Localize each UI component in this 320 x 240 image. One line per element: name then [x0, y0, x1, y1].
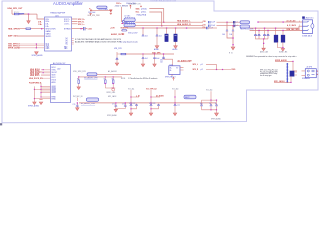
svg-text:HDA_SPK_OUT: HDA_SPK_OUT — [8, 7, 24, 10]
svg-text:L4: L4 — [236, 25, 238, 27]
svg-text:L3: L3 — [236, 22, 238, 24]
svg-text:SDOUT: SDOUT — [52, 72, 58, 74]
page border outline — [2, 1, 318, 123]
svg-text:GND5: GND5 — [52, 92, 57, 94]
svg-text:GM MHB Place promoted on clos: GM MHB Place promoted on close to any co… — [246, 55, 297, 58]
ground below U21 — [35, 52, 39, 55]
svg-text:C71: C71 — [112, 104, 115, 106]
G0b caps + ground — [116, 104, 126, 110]
svg-text:C75 C76: C75 C76 — [149, 103, 155, 105]
svg-text:A_LIN_JD#: A_LIN_JD# — [287, 20, 296, 23]
rail wire y77 — [78, 76, 122, 78]
svg-text:DOCKING HDA ALC AUDIO CON: DOCKING HDA ALC AUDIO CON — [151, 0, 177, 2]
ferrite bead FB3 — [97, 6, 107, 9]
ground left 1 — [33, 102, 36, 105]
diode D3 — [109, 10, 112, 12]
corner speck bottom-left — [0, 123, 2, 125]
svg-text:Amplifier: Amplifier — [67, 1, 84, 6]
svg-text:R320: R320 — [232, 69, 236, 71]
pullup wire vertical — [122, 7, 123, 21]
svg-text:HDA p/HDA: HDA p/HDA — [137, 14, 147, 17]
wire with dot — [206, 69, 231, 71]
wire row with resistor R71 — [18, 28, 45, 30]
svg-text:C77: C77 — [177, 105, 180, 107]
svg-text:ADJACENT. SEPARATE ANALOG/DIG: ADJACENT. SEPARATE ANALOG/DIGI GROUNDS F… — [75, 41, 121, 44]
svg-text:3: 3 — [299, 29, 300, 31]
junction — [41, 28, 42, 29]
wire horizontal to R/L — [12, 13, 29, 15]
wire vertical from label — [11, 10, 13, 15]
svg-text:C08: C08 — [203, 21, 206, 23]
svg-text:SDA: SDA — [136, 7, 141, 10]
svg-text:VDD p/1.8V: VDD p/1.8V — [128, 33, 138, 35]
EMI filter FB6 — [240, 25, 250, 28]
svg-text:HDA_JAK_SEN: HDA_JAK_SEN — [287, 28, 300, 31]
junction — [80, 28, 81, 29]
junction at choke input — [122, 23, 123, 24]
svg-text:JACK1 3.5: JACK1 3.5 — [305, 17, 313, 20]
choke L2 body — [124, 18, 135, 22]
svg-text:SE/BTL: SE/BTL — [46, 36, 52, 38]
wire elbow into IC pin — [37, 14, 45, 19]
svg-text:104: 104 — [222, 34, 225, 36]
svg-text:the amp board circuits: the amp board circuits — [120, 41, 138, 44]
wire down to ground — [28, 14, 30, 21]
electrolytic C318 with ground — [175, 28, 177, 46]
svg-text:2 IN-: 2 IN- — [38, 21, 42, 23]
svg-text:1 IN+: 1 IN+ — [38, 24, 42, 26]
pullup resistor R304 — [123, 21, 128, 23]
junction dots rail — [142, 53, 143, 54]
rail wire y28 — [127, 27, 207, 29]
ground small left — [90, 13, 92, 15]
svg-text:R70 2.2: R70 2.2 — [14, 12, 19, 14]
svg-text:2.2uF: 2.2uF — [211, 25, 215, 27]
wire up to connector — [274, 76, 291, 82]
ferrite bead FB7 — [87, 73, 97, 76]
BYPASS wire row — [72, 28, 84, 30]
svg-text:VIN_1P8: VIN_1P8 — [114, 48, 122, 50]
cap C311 — [232, 30, 234, 31]
svg-text:for all amp type: for all amp type — [260, 74, 272, 77]
drop wires from lines — [256, 28, 269, 34]
right stubs ROUT/LOUT — [72, 19, 78, 24]
connector pin stubs — [302, 71, 306, 75]
wire right from FB7 — [97, 73, 131, 75]
electrolytic C317 — [166, 28, 168, 34]
ground left 2 — [39, 99, 42, 100]
svg-text:NEXT: NEXT — [185, 97, 190, 99]
svg-text:R3 R4: R3 R4 — [121, 78, 125, 80]
ground symbol — [27, 21, 30, 24]
svg-text:104: 104 — [229, 34, 232, 36]
svg-text:A_R_JACK: A_R_JACK — [287, 24, 297, 27]
svg-text:AGND: AGND — [154, 48, 160, 51]
svg-text:TPA6017A2PWP: TPA6017A2PWP — [50, 11, 66, 14]
svg-text:+VDD: +VDD — [115, 5, 121, 7]
svg-text:VDDSPK: VDDSPK — [120, 27, 128, 29]
junction dot — [163, 53, 164, 54]
chassis ground circle — [112, 88, 115, 91]
drop wires from bus to caps — [227, 22, 233, 30]
svg-text:HDA_RST#: HDA_RST# — [30, 74, 40, 77]
jack barrel — [311, 24, 314, 29]
junction dots at pin ends — [43, 69, 44, 70]
transistor Q5 — [290, 71, 294, 77]
svg-text:L2 CMC: L2 CMC — [124, 16, 131, 18]
wire from inductor to junction — [24, 13, 37, 15]
wires from EMI to jack — [250, 26, 303, 28]
cap pair 2 — [263, 35, 266, 36]
caps G4 — [200, 105, 203, 106]
junction dots on rail — [77, 102, 78, 103]
coupling caps on bus — [233, 21, 234, 24]
jack dark pin block — [302, 16, 305, 18]
svg-text:2: 2 — [299, 25, 300, 27]
wire into choke — [121, 21, 127, 23]
svg-text:SPKR_AGND: SPKR_AGND — [32, 54, 44, 57]
wire bus R — [135, 25, 240, 27]
junction dots strap — [40, 86, 41, 87]
svg-text:U22: U22 — [57, 69, 60, 71]
op-amp U21 box — [45, 17, 72, 51]
svg-text:SPK_L: SPK_L — [193, 64, 198, 66]
red stub arrow — [173, 77, 175, 80]
drop C316 with ground — [156, 28, 158, 46]
svg-text:VDD_SPK_1P8: VDD_SPK_1P8 — [73, 71, 86, 73]
svg-text:LOUT+: LOUT+ — [64, 24, 70, 26]
wire bus L — [135, 21, 240, 23]
pin arrows right — [317, 70, 318, 75]
NEXT box — [184, 95, 196, 99]
wires to codec — [41, 70, 51, 76]
wire row2 — [149, 12, 161, 26]
cap C310 — [226, 30, 228, 31]
junction dots — [36, 43, 37, 44]
junction dots on rail — [142, 27, 143, 28]
svg-text:BYPASS: BYPASS — [64, 27, 72, 30]
rail wire y54 — [126, 53, 174, 55]
joining wires below caps — [256, 36, 269, 49]
svg-text:AMP_SD#: AMP_SD# — [8, 35, 18, 38]
svg-text:104: 104 — [145, 58, 148, 60]
drop cap C321 + ground — [154, 54, 156, 64]
red stub arrow up — [130, 5, 132, 9]
EMI filter FB5 — [240, 21, 250, 24]
svg-text:104: 104 — [145, 35, 148, 37]
svg-text:5: 5 — [299, 21, 300, 23]
svg-text:p/1: p/1 — [201, 64, 203, 66]
resistor R71 — [26, 28, 31, 29]
svg-text:C301: C301 — [88, 28, 92, 30]
junction dots under resistors — [105, 83, 106, 84]
strap wire network — [34, 83, 50, 102]
wire — [17, 35, 45, 37]
svg-text:SPEAKER: SPEAKER — [302, 77, 311, 80]
svg-text:INT_MIC_IN: INT_MIC_IN — [73, 96, 83, 98]
wires below ESD to ground — [277, 42, 283, 48]
strap vertical — [35, 44, 37, 48]
junction — [232, 37, 233, 38]
svg-text:C Place A close the SW the R a: C Place A close the SW the R audio.etc — [128, 77, 158, 80]
svg-text:+1.8V: +1.8V — [110, 27, 116, 29]
svg-text:HDA_DOCK_EN: HDA_DOCK_EN — [29, 77, 43, 80]
svg-text:RST#: RST# — [52, 77, 56, 79]
svg-text:VDD_SPK: VDD_SPK — [152, 52, 161, 54]
cap pair 1 — [254, 35, 257, 36]
svg-text:HDA_AUDIO_L: HDA_AUDIO_L — [177, 20, 191, 23]
svg-text:R_31: R_31 — [229, 53, 233, 55]
svg-text:C73 C74: C73 C74 — [129, 103, 135, 105]
svg-text:10uF: 10uF — [156, 58, 160, 60]
svg-text:104: 104 — [160, 61, 163, 63]
svg-text:MIC_JACK: MIC_JACK — [108, 95, 117, 98]
svg-text:SPK_R: SPK_R — [193, 69, 199, 71]
svg-text:C84: C84 — [160, 59, 163, 61]
rail wire y103 — [79, 102, 216, 104]
drop cap C322 — [164, 54, 173, 66]
join + ground G4 — [202, 106, 217, 113]
tiny red mark — [140, 5, 142, 7]
ground 2 — [281, 49, 284, 51]
svg-text:SPK_L+: SPK_L+ — [78, 24, 84, 26]
svg-text:J4 SPK: J4 SPK — [306, 66, 313, 68]
junction dots on drops — [163, 22, 164, 23]
svg-text:p/SCL: p/SCL — [141, 12, 146, 14]
stub and resistor R315 — [117, 52, 121, 54]
svg-text:IN+: IN+ — [170, 67, 173, 69]
amp U23 box — [169, 66, 180, 75]
drop C315 — [142, 28, 144, 35]
blue vertical label line — [286, 63, 288, 83]
ground — [174, 46, 178, 49]
amp right stubs — [180, 67, 184, 70]
svg-text:HDA_AMP_ON: HDA_AMP_ON — [128, 2, 141, 5]
ground G4 — [215, 113, 219, 116]
svg-text:A1_AUDIO: A1_AUDIO — [108, 70, 117, 73]
svg-text:HDA_AUDIO_R: HDA_AUDIO_R — [177, 23, 191, 26]
speaker connector J4 — [305, 69, 316, 78]
ground — [155, 46, 159, 49]
codec U22 box — [51, 65, 71, 103]
wire jog — [206, 65, 217, 70]
svg-text:C300 10uF: C300 10uF — [88, 12, 96, 14]
svg-text:p/SCA: p/SCA — [141, 7, 147, 10]
ESD array D31 — [281, 35, 285, 42]
svg-text:AGND: AGND — [173, 48, 179, 51]
bypass capacitor C301 — [84, 27, 85, 30]
svg-text:B1_AUDIO_1P8: B1_AUDIO_1P8 — [84, 76, 97, 79]
resistor R70 — [14, 13, 19, 15]
wire through cluster — [90, 9, 111, 11]
junction node — [28, 13, 29, 14]
wire row1 — [149, 9, 163, 23]
svg-text:C30 1u: C30 1u — [116, 3, 121, 5]
svg-text:SPKR_GND: SPKR_GND — [106, 92, 116, 94]
svg-text:2.2uF: 2.2uF — [211, 22, 215, 24]
junction dots on bus — [226, 22, 227, 23]
ground small right — [110, 13, 112, 15]
svg-text:p/2: p/2 — [201, 69, 203, 71]
cap C300 polarized — [89, 8, 92, 11]
join wire and drop to ground — [227, 31, 233, 47]
jack internal contacts — [303, 21, 309, 30]
svg-text:C19: C19 — [202, 27, 205, 29]
drop cap C320 + ground — [142, 54, 144, 64]
inductor L5 — [19, 12, 24, 15]
ESD array D30 — [276, 28, 284, 35]
svg-text:3.5MM JACK: 3.5MM JACK — [302, 34, 313, 37]
junction dots on jack lines — [255, 28, 256, 29]
svg-text:C09: C09 — [203, 24, 206, 26]
svg-text:SPKR_AGND: SPKR_AGND — [28, 104, 40, 107]
header connector CN6 — [86, 98, 98, 101]
wire top sleeve — [258, 21, 303, 23]
svg-text:104: 104 — [159, 35, 162, 37]
svg-text:C70: C70 — [73, 104, 76, 106]
stub component below — [77, 98, 79, 101]
svg-text:AUDIO: AUDIO — [53, 1, 67, 6]
svg-text:AUDIO_OUTR: AUDIO_OUTR — [111, 33, 124, 36]
stub cap and ground — [116, 54, 118, 58]
ground 1 — [262, 48, 265, 50]
wires into VDD/GND pins — [19, 44, 45, 48]
wire to vertical — [275, 61, 297, 71]
jack connector body — [303, 20, 313, 34]
amp bottom stub — [171, 75, 173, 77]
ground symbol — [231, 47, 235, 50]
